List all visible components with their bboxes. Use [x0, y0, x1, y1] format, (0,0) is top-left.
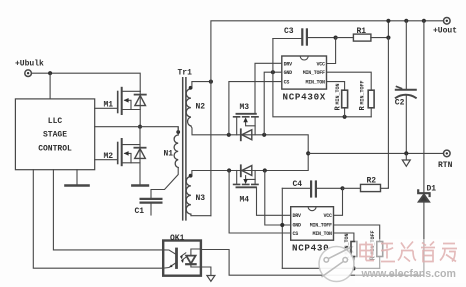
wire VCC1: [327, 38, 336, 64]
capacitor C1: [141, 168, 179, 216]
wire CS2 riser: [229, 171, 291, 234]
svg-text:C2: C2: [395, 99, 405, 108]
svg-text:STAGE: STAGE: [43, 131, 67, 140]
svg-text:C4: C4: [293, 180, 303, 189]
node C4/VCC2/R2 junction: [340, 186, 344, 190]
transistor M4: [234, 171, 258, 188]
transistor M3: [234, 114, 258, 135]
wire MIN_TON2: [334, 233, 354, 242]
wire N3 top lead: [192, 153, 308, 174]
op-amp U3 LLC STAGE CONTROL box: [15, 99, 94, 170]
node rail R1 junction: [386, 19, 390, 23]
node +Ubulk terminal: [25, 70, 32, 77]
wire LLC to OK1 lower: [33, 170, 163, 269]
svg-text:M1: M1: [104, 101, 114, 110]
node Rmin_ton1 bottom junction: [343, 115, 347, 119]
label LLC STAGE CONTROL: [38, 117, 72, 154]
wire GND2 riser: [265, 171, 291, 226]
transistor OK1 photo: [163, 249, 187, 268]
node M3 left junction: [227, 133, 231, 137]
wire Uout to R2 drop: [387, 38, 389, 188]
svg-text:M4: M4: [240, 196, 250, 205]
inductor N3 secondary winding: [186, 174, 192, 214]
label Rmin_toff1: [359, 80, 367, 110]
node M3 right junction: [262, 133, 266, 137]
wire C3 left / Rmin bottom rail: [273, 39, 371, 117]
svg-text:N2: N2: [196, 102, 206, 111]
node GND1/C3 junction: [271, 70, 275, 74]
wire midpoint from LLC to N1: [95, 127, 179, 131]
svg-text:VCC: VCC: [324, 213, 333, 219]
node RTN terminal: [444, 150, 451, 157]
diode OK1 led: [186, 249, 201, 267]
watermark chinese text 电子发烧友: [360, 242, 457, 262]
svg-text:CS: CS: [293, 231, 299, 237]
wire C4 left riser: [281, 188, 283, 268]
svg-text:GND: GND: [293, 223, 302, 229]
label Rmin_toff2: [370, 230, 378, 260]
resistor Rmin_toff1: [368, 90, 374, 117]
node rail/N2 junction: [209, 80, 213, 84]
svg-text:MIN_TON: MIN_TON: [335, 83, 341, 104]
wire Rmin bottoms rail 2: [282, 267, 379, 269]
inductor N1 primary winding: [174, 127, 180, 168]
svg-text:+Uout: +Uout: [433, 27, 457, 36]
wire MIN_TON1: [327, 82, 345, 91]
node C3/VCC1/R1 junction: [334, 36, 338, 40]
diode M4 body: [241, 165, 252, 176]
svg-text:MIN_TON: MIN_TON: [313, 231, 333, 237]
svg-text:C1: C1: [135, 207, 145, 216]
diode M3 body: [241, 129, 252, 140]
transistor M1: [118, 88, 141, 114]
svg-text:N3: N3: [196, 194, 206, 203]
svg-text:LLC: LLC: [48, 117, 63, 126]
wire N2 bottom to M3: [191, 126, 308, 153]
svg-text:M3: M3: [240, 103, 250, 112]
transistor M2: [118, 139, 140, 165]
ground OK1 RTN marker: [207, 276, 215, 282]
svg-text:RTN: RTN: [438, 161, 453, 170]
wire LLC to OK1 upper: [53, 170, 163, 250]
wire M2 gate: [95, 159, 118, 161]
inductor N2 secondary winding: [186, 86, 192, 126]
node half-bridge midpoint: [138, 125, 142, 129]
svg-text:www.elecfans.com: www.elecfans.com: [361, 268, 456, 280]
wire VCC2: [334, 188, 343, 215]
node M4 left junction: [227, 168, 231, 172]
svg-text:CS: CS: [284, 80, 290, 86]
capacitor C4: [282, 182, 342, 197]
node junction dot bulk/LLC: [48, 71, 52, 75]
svg-text:CONTROL: CONTROL: [38, 145, 72, 154]
svg-text:GND: GND: [284, 70, 293, 76]
wire +Uout top rail: [211, 21, 444, 82]
wire DRV2 to M4 gate: [257, 187, 291, 215]
wire GND1: [264, 72, 282, 135]
svg-text:M2: M2: [104, 152, 114, 161]
label Rmin_ton1: [335, 83, 343, 110]
svg-text:NCP430X: NCP430X: [283, 92, 327, 103]
wire rail to N3 bottom: [210, 82, 212, 216]
wire MIN_TOFF1: [327, 72, 372, 90]
label U1 pins: [284, 61, 325, 85]
svg-text:MIN_TOFF: MIN_TOFF: [359, 80, 365, 104]
op-amp U2 NCP430X box: [291, 207, 334, 241]
resistor Rmin_ton2: [351, 242, 357, 269]
resistor R2: [343, 184, 389, 191]
node RTN C2 junction: [404, 151, 408, 155]
wire DRV1 to M3 gate: [255, 63, 282, 114]
wire MIN_TOFF2: [334, 225, 380, 242]
capacitor C2: [396, 21, 416, 154]
svg-text:DRV: DRV: [284, 61, 293, 67]
svg-text:OK1: OK1: [170, 234, 185, 243]
node R1/R2 branch junction: [386, 36, 390, 40]
svg-text:+Ubulk: +Ubulk: [15, 60, 44, 69]
wire N2 top to rail node: [192, 82, 211, 87]
svg-text:MIN_TOFF: MIN_TOFF: [310, 223, 332, 229]
wire feedback bottom: [201, 250, 424, 276]
watermark elecfans stamp: [319, 239, 466, 283]
svg-text:MIN_TON: MIN_TON: [306, 80, 326, 86]
svg-text:D1: D1: [427, 184, 437, 193]
wire M1 gate: [95, 107, 118, 109]
node M4 right junction: [263, 168, 267, 172]
wire RTN row: [308, 152, 443, 154]
node Rmin_ton2 bottom junction: [352, 266, 356, 270]
node rail D1 junction: [422, 19, 426, 23]
optocoupler OK1 box: [163, 241, 201, 276]
resistor Rmin_ton1: [342, 90, 348, 117]
svg-text:MIN_TOFF: MIN_TOFF: [303, 70, 325, 76]
wire OK1 emitter to RTN: [201, 267, 211, 275]
node GND2/C4 junction: [280, 223, 284, 227]
node +Uout terminal: [444, 18, 451, 25]
wire D1 riser: [423, 21, 425, 193]
wire bulk to LLC box: [49, 73, 51, 99]
ground LLC box: [66, 170, 89, 186]
label U2 pins: [293, 213, 333, 237]
resistor Rmin_toff2: [377, 242, 383, 269]
wire +Ubulk rail to M1 drain: [32, 73, 141, 91]
ground M2 source: [132, 184, 148, 187]
ground RTN marker: [402, 153, 410, 166]
capacitor C3: [273, 29, 336, 44]
node RTN row junction: [306, 151, 310, 155]
node rail C2 junction: [404, 19, 408, 23]
svg-text:R2: R2: [367, 176, 377, 185]
svg-text:C3: C3: [284, 27, 294, 36]
diode M1 body: [135, 91, 146, 126]
svg-text:N1: N1: [164, 150, 174, 159]
svg-text:VCC: VCC: [317, 61, 326, 67]
wire N3 bottom lead: [191, 214, 211, 216]
wire CS1 riser: [229, 82, 282, 135]
resistor R1: [336, 21, 389, 41]
svg-text:DRV: DRV: [293, 213, 302, 219]
svg-text:R1: R1: [357, 27, 367, 36]
transformer Tr1 core: [183, 78, 186, 220]
diode D1 zener: [418, 190, 429, 275]
label Rmin_ton2: [344, 233, 352, 260]
op-amp U1 NCP430X box: [282, 56, 327, 89]
svg-text:Tr1: Tr1: [178, 69, 193, 78]
diode M2 body: [134, 127, 145, 185]
